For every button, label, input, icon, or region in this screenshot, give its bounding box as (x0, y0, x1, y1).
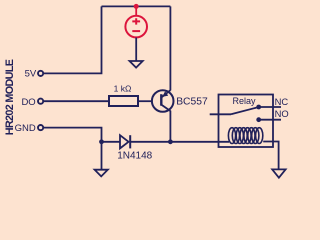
relay switch blade (231, 107, 257, 114)
wire diode cathode to collector node (130, 141, 170, 143)
svg-text:NO: NO (275, 108, 289, 119)
svg-text:NC: NC (275, 96, 289, 107)
wire NC stub (259, 106, 281, 108)
svg-text:BC557: BC557 (176, 96, 208, 107)
ground arrow under source (130, 61, 143, 68)
wire 5V to top rail (43, 6, 101, 73)
wire junction to ground arrow (101, 142, 103, 170)
wire DO to resistor (44, 100, 109, 102)
node junction GND/diode (99, 139, 104, 144)
wire emitter to rail (169, 6, 171, 90)
terminal DO (38, 99, 43, 104)
svg-text:1 kΩ: 1 kΩ (114, 84, 132, 94)
relay coil (228, 128, 262, 144)
diode D1 1N4148 (120, 135, 130, 148)
wire source negative down (135, 38, 137, 61)
relay common stub (210, 113, 231, 115)
transistor Q1 BC557 (152, 90, 174, 112)
svg-text:1N4148: 1N4148 (117, 150, 152, 161)
node junction collector/diode/coil (168, 139, 173, 144)
wire source to rail (crimson) (135, 6, 137, 16)
wire coil to right ground (263, 142, 278, 170)
svg-text:DO: DO (21, 97, 35, 108)
node junction on rail (crimson) (134, 4, 139, 9)
ground arrow right (272, 169, 285, 177)
wire resistor to base (138, 100, 152, 102)
relay NC contact dot (256, 105, 261, 110)
resistor R1 (109, 96, 138, 106)
terminal 5V (38, 71, 43, 76)
wire NO stub (259, 119, 281, 121)
relay K1 box (219, 95, 274, 148)
svg-text:Relay: Relay (232, 96, 256, 106)
wire top rail (102, 5, 171, 7)
voltage source V1 (125, 16, 147, 38)
svg-text:GND: GND (15, 123, 36, 134)
emitter arrow (PNP, points to base) (162, 91, 168, 97)
wire GND right and down (44, 128, 102, 142)
svg-text:5V: 5V (25, 68, 37, 79)
terminal GND (38, 125, 43, 130)
relay NO contact dot (256, 117, 261, 122)
wire diode anode (102, 141, 121, 143)
wire node to relay coil (170, 141, 229, 143)
wire collector down (169, 111, 171, 142)
ground arrow left (95, 170, 108, 177)
